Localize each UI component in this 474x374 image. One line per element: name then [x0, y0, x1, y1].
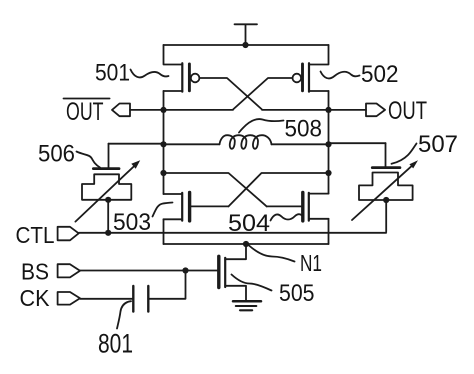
wire 504 source down to N1 rail [328, 219, 330, 244]
svg-text:BS: BS [21, 259, 49, 285]
wire left tank vertical [163, 91, 165, 194]
terminal arrow OUT (points right) [366, 104, 385, 117]
arrow across varactor 507 [352, 160, 418, 220]
wire right tank vertical [328, 91, 330, 194]
leader from 801 [117, 301, 131, 328]
svg-text:502: 502 [361, 61, 399, 88]
wire capacitor to BS node [148, 271, 185, 299]
overline of OUTbar [64, 98, 110, 100]
wire OUT row [262, 109, 366, 111]
wire gate of 503 [191, 205, 228, 207]
transistor 501 (PMOS) [164, 45, 200, 92]
leader from 501 [131, 70, 169, 78]
leader from 505 [232, 275, 272, 291]
junction CTL-varactor506 tap [105, 230, 111, 236]
power supply VDD symbol [235, 24, 258, 45]
wire OUTbar row [130, 109, 233, 111]
svg-text:CK: CK [20, 285, 50, 311]
junction BS-CK [182, 267, 188, 273]
leader from 508 [239, 119, 284, 132]
wire N1 rail [164, 243, 329, 245]
junction OUT-right vertical [325, 107, 331, 113]
ground [233, 301, 261, 310]
leader from 506 [77, 152, 101, 168]
transistor 503 (NMOS) [164, 193, 190, 221]
terminal arrow OUTbar (points left) [112, 104, 130, 117]
wire CTL line [79, 232, 387, 234]
wire VDD rail [164, 44, 329, 46]
arrow across varactor 506 [75, 160, 140, 221]
varactor 506 [82, 144, 131, 200]
wire NMOS cross row left [164, 173, 267, 206]
svg-text:506: 506 [38, 141, 75, 168]
wire BS to gate of 505 [80, 270, 217, 272]
wire varactor506 tap down to CTL [107, 200, 109, 233]
junction supply-rail [242, 42, 248, 48]
wire CK to capacitor [80, 298, 133, 300]
junction cross-right [325, 170, 331, 176]
terminal arrow CTL (points right) [58, 227, 79, 241]
leader from 504 [271, 214, 303, 220]
terminal arrow BS (points right) [58, 264, 80, 277]
svg-text:OUT: OUT [388, 97, 427, 125]
inductor 508 [164, 135, 329, 149]
svg-text:N1: N1 [300, 250, 322, 276]
wire gate of 501 cross-coupled to OUT node [199, 78, 262, 110]
wire varactor506 top to tank [109, 143, 164, 145]
junction inductor-right [325, 141, 331, 147]
transistor 504 (NMOS) [303, 193, 329, 221]
svg-text:505: 505 [279, 280, 315, 307]
junction cross-left [160, 170, 166, 176]
wire gate of 502 cross-coupled to OUTbar node [233, 78, 293, 110]
leader from 502 [321, 72, 360, 79]
wire NMOS cross row right [229, 173, 329, 206]
svg-text:507: 507 [418, 131, 458, 158]
junction varactor506 bottom [105, 197, 111, 203]
varactor 507 [359, 143, 413, 200]
wire varactor507 top to tank [329, 142, 386, 144]
svg-text:OUT: OUT [66, 98, 104, 126]
capacitor 801 [133, 286, 148, 312]
wire 503 source down to N1 rail [163, 219, 165, 244]
junction inductor-left [160, 141, 166, 147]
leader from N1 [249, 246, 295, 262]
junction varactor507 bottom [383, 197, 389, 203]
svg-text:CTL: CTL [16, 222, 55, 248]
svg-text:501: 501 [95, 60, 130, 87]
transistor 505 (NMOS tail) [219, 244, 246, 301]
wire gate of 504 [267, 205, 302, 207]
terminal arrow CK (points right) [58, 292, 80, 305]
junction N1 [243, 241, 249, 247]
svg-text:801: 801 [98, 329, 133, 359]
junction OUTbar-left vertical [160, 107, 166, 113]
wire varactor507 tap down to CTL [385, 200, 387, 232]
svg-text:508: 508 [285, 116, 323, 143]
transistor 502 (PMOS) [293, 45, 329, 92]
leader from 507 [392, 144, 417, 164]
leader from 503 [153, 203, 173, 217]
